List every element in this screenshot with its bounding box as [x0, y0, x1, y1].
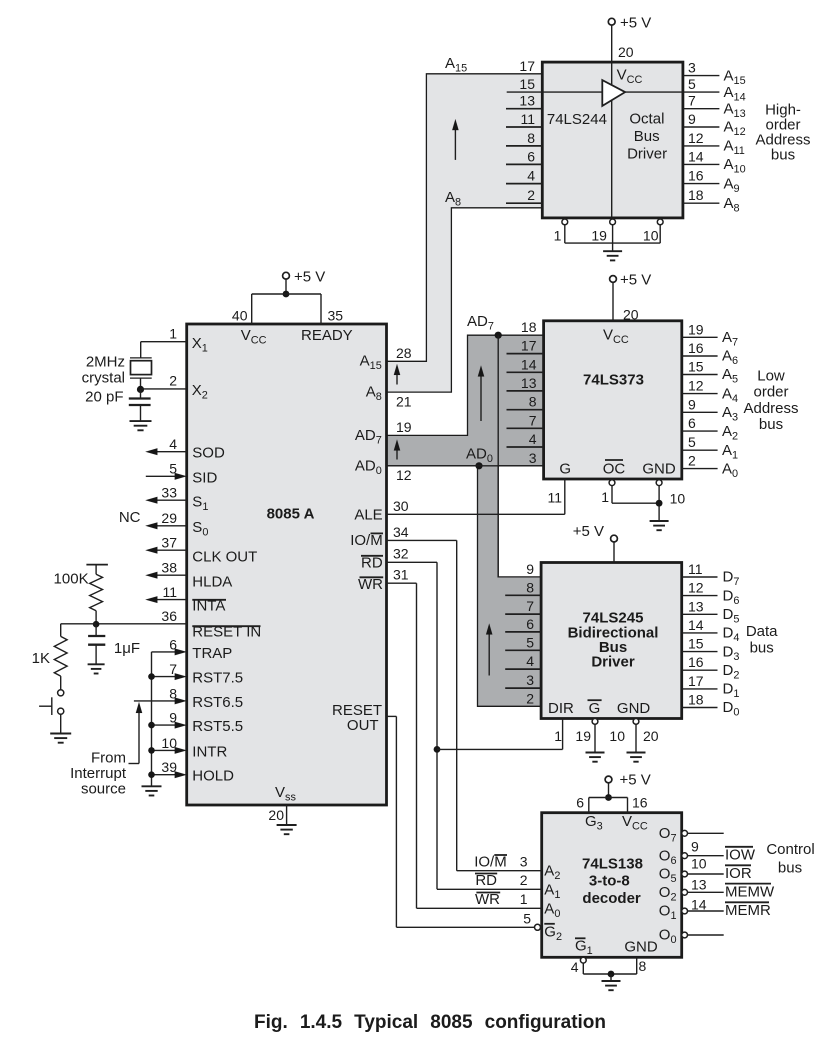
- svg-text:INTR: INTR: [192, 743, 227, 760]
- svg-text:1K: 1K: [32, 650, 50, 667]
- svg-text:14: 14: [688, 148, 704, 164]
- svg-text:8: 8: [526, 579, 534, 595]
- svg-text:12: 12: [688, 580, 704, 596]
- svg-text:39: 39: [161, 759, 177, 775]
- svg-text:33: 33: [161, 485, 177, 501]
- svg-text:14: 14: [688, 617, 704, 633]
- svg-text:12: 12: [396, 467, 412, 483]
- svg-text:7: 7: [529, 412, 537, 428]
- svg-text:2: 2: [527, 187, 535, 203]
- svg-text:SOD: SOD: [192, 445, 225, 462]
- svg-text:35: 35: [328, 308, 344, 324]
- svg-text:16: 16: [688, 654, 704, 670]
- svg-text:1: 1: [169, 326, 177, 342]
- svg-text:+5 V: +5 V: [620, 772, 651, 789]
- svg-text:6: 6: [169, 636, 177, 652]
- svg-text:20: 20: [618, 44, 634, 60]
- svg-text:order: order: [753, 384, 788, 401]
- svg-text:RST7.5: RST7.5: [192, 670, 243, 687]
- svg-text:OUT: OUT: [347, 717, 379, 734]
- svg-text:9: 9: [688, 111, 696, 127]
- svg-text:TRAP: TRAP: [192, 645, 232, 662]
- svg-text:16: 16: [632, 795, 648, 811]
- svg-text:bus: bus: [750, 640, 774, 657]
- svg-text:GND: GND: [642, 461, 676, 478]
- svg-text:30: 30: [393, 498, 409, 514]
- svg-text:From: From: [91, 750, 126, 767]
- svg-text:74LS244: 74LS244: [547, 111, 607, 128]
- svg-text:MEMR: MEMR: [725, 902, 771, 919]
- svg-text:HOLD: HOLD: [192, 768, 234, 785]
- svg-text:3-to-8: 3-to-8: [589, 873, 630, 890]
- svg-text:15: 15: [688, 636, 704, 652]
- svg-text:HLDA: HLDA: [192, 573, 232, 590]
- svg-text:bus: bus: [771, 147, 795, 164]
- svg-text:1μF: 1μF: [114, 640, 140, 657]
- svg-text:14: 14: [691, 897, 707, 913]
- svg-text:2: 2: [520, 872, 528, 888]
- svg-text:1: 1: [520, 891, 528, 907]
- svg-text:IOW: IOW: [725, 847, 756, 864]
- svg-text:Interrupt: Interrupt: [70, 765, 127, 782]
- svg-text:15: 15: [688, 359, 704, 375]
- svg-text:6: 6: [526, 616, 534, 632]
- svg-text:4: 4: [571, 959, 579, 975]
- svg-text:GND: GND: [624, 939, 658, 956]
- svg-text:29: 29: [161, 510, 177, 526]
- svg-text:6: 6: [527, 148, 535, 164]
- svg-text:4: 4: [526, 653, 534, 669]
- svg-text:Low: Low: [757, 368, 785, 385]
- svg-text:bus: bus: [778, 859, 802, 876]
- svg-text:Octal: Octal: [629, 111, 664, 128]
- svg-text:Address: Address: [743, 400, 798, 417]
- svg-text:17: 17: [519, 58, 535, 74]
- svg-text:18: 18: [521, 319, 537, 335]
- svg-text:WR: WR: [475, 891, 500, 908]
- svg-text:11: 11: [547, 490, 562, 506]
- svg-text:1: 1: [554, 228, 562, 244]
- svg-text:8: 8: [639, 958, 647, 974]
- svg-text:WR: WR: [358, 576, 383, 593]
- svg-text:5: 5: [169, 461, 177, 477]
- svg-text:4: 4: [527, 168, 535, 184]
- svg-text:3: 3: [529, 450, 537, 466]
- svg-text:8: 8: [529, 394, 537, 410]
- svg-text:Fig. 1.4.5 Typical 8085 config: Fig. 1.4.5 Typical 8085 configuration: [254, 1012, 606, 1033]
- svg-text:16: 16: [688, 168, 704, 184]
- svg-text:4: 4: [169, 436, 177, 452]
- svg-text:G: G: [589, 700, 601, 717]
- svg-text:14: 14: [521, 356, 537, 372]
- svg-text:3: 3: [688, 60, 696, 76]
- svg-text:38: 38: [161, 560, 177, 576]
- svg-text:36: 36: [161, 608, 177, 624]
- svg-text:3: 3: [520, 854, 528, 870]
- svg-text:Driver: Driver: [627, 146, 667, 163]
- svg-text:19: 19: [591, 228, 607, 244]
- svg-text:ALE: ALE: [354, 507, 382, 524]
- svg-text:31: 31: [393, 567, 409, 583]
- svg-text:17: 17: [521, 338, 537, 354]
- svg-text:6: 6: [576, 795, 584, 811]
- svg-text:RST6.5: RST6.5: [192, 694, 243, 711]
- svg-text:+5 V: +5 V: [573, 523, 604, 540]
- svg-text:20: 20: [623, 307, 639, 323]
- svg-text:13: 13: [691, 877, 707, 893]
- svg-text:RST5.5: RST5.5: [192, 718, 243, 735]
- svg-text:5: 5: [688, 76, 696, 92]
- svg-text:19: 19: [575, 728, 591, 744]
- svg-text:12: 12: [688, 130, 704, 146]
- svg-text:+5 V: +5 V: [620, 272, 651, 289]
- svg-text:decoder: decoder: [582, 890, 641, 907]
- svg-text:11: 11: [162, 584, 177, 600]
- svg-text:+5 V: +5 V: [294, 269, 325, 286]
- svg-text:20: 20: [268, 807, 284, 823]
- svg-text:5: 5: [523, 911, 531, 927]
- svg-text:2: 2: [526, 690, 534, 706]
- svg-text:10: 10: [161, 735, 177, 751]
- svg-text:11: 11: [520, 111, 535, 127]
- svg-text:7: 7: [526, 598, 534, 614]
- svg-text:G: G: [559, 461, 571, 478]
- svg-text:19: 19: [396, 419, 412, 435]
- svg-text:18: 18: [688, 692, 704, 708]
- svg-text:9: 9: [691, 839, 699, 855]
- svg-text:3: 3: [526, 672, 534, 688]
- svg-text:READY: READY: [301, 327, 353, 344]
- svg-text:16: 16: [688, 340, 704, 356]
- svg-text:8: 8: [169, 685, 177, 701]
- svg-text:40: 40: [232, 308, 248, 324]
- svg-text:Bus: Bus: [634, 128, 660, 145]
- svg-text:11: 11: [688, 561, 703, 577]
- svg-text:OC: OC: [603, 461, 626, 478]
- svg-text:2: 2: [169, 373, 177, 389]
- svg-text:Control: Control: [766, 841, 814, 858]
- svg-text:74LS373: 74LS373: [583, 372, 644, 389]
- svg-text:CLK OUT: CLK OUT: [192, 549, 257, 566]
- svg-text:9: 9: [526, 561, 534, 577]
- svg-text:2: 2: [688, 453, 696, 469]
- svg-text:8085 A: 8085 A: [267, 506, 315, 523]
- svg-text:32: 32: [393, 546, 409, 562]
- svg-text:Driver: Driver: [591, 654, 635, 671]
- svg-text:28: 28: [396, 345, 412, 361]
- svg-text:10: 10: [609, 728, 625, 744]
- svg-text:37: 37: [161, 535, 177, 551]
- svg-text:4: 4: [529, 431, 537, 447]
- svg-text:5: 5: [526, 634, 534, 650]
- svg-text:GND: GND: [617, 700, 651, 717]
- svg-text:IO/M: IO/M: [474, 854, 507, 871]
- svg-text:20: 20: [643, 728, 659, 744]
- svg-text:SID: SID: [192, 469, 217, 486]
- svg-text:13: 13: [688, 598, 704, 614]
- svg-text:IOR: IOR: [725, 865, 752, 882]
- svg-text:5: 5: [688, 434, 696, 450]
- svg-text:crystal: crystal: [82, 370, 125, 387]
- svg-text:9: 9: [169, 710, 177, 726]
- svg-text:12: 12: [688, 378, 704, 394]
- svg-text:1: 1: [601, 489, 609, 505]
- svg-text:NC: NC: [119, 509, 141, 526]
- svg-text:13: 13: [521, 375, 537, 391]
- svg-text:21: 21: [396, 393, 412, 409]
- svg-text:DIR: DIR: [548, 700, 574, 717]
- svg-text:RD: RD: [475, 872, 497, 889]
- svg-text:bus: bus: [759, 416, 783, 433]
- svg-text:7: 7: [688, 93, 696, 109]
- svg-text:10: 10: [691, 856, 707, 872]
- svg-text:Data: Data: [746, 623, 778, 640]
- svg-text:34: 34: [393, 524, 409, 540]
- svg-text:15: 15: [519, 76, 535, 92]
- svg-text:8: 8: [527, 130, 535, 146]
- svg-text:7: 7: [169, 661, 177, 677]
- svg-text:74LS138: 74LS138: [582, 856, 643, 873]
- svg-text:10: 10: [643, 228, 659, 244]
- svg-text:13: 13: [519, 93, 535, 109]
- svg-text:20 pF: 20 pF: [85, 389, 123, 406]
- svg-text:100K: 100K: [54, 571, 89, 588]
- svg-text:source: source: [81, 781, 126, 798]
- svg-text:MEMW: MEMW: [725, 883, 775, 900]
- svg-text:+5 V: +5 V: [620, 15, 651, 32]
- svg-text:9: 9: [688, 396, 696, 412]
- svg-text:10: 10: [670, 491, 686, 507]
- svg-text:RD: RD: [361, 555, 383, 572]
- svg-text:19: 19: [688, 321, 704, 337]
- svg-text:2MHz: 2MHz: [86, 354, 125, 371]
- svg-text:1: 1: [554, 728, 562, 744]
- svg-text:6: 6: [688, 415, 696, 431]
- svg-text:IO/M: IO/M: [350, 532, 383, 549]
- svg-text:18: 18: [688, 187, 704, 203]
- svg-text:17: 17: [688, 673, 704, 689]
